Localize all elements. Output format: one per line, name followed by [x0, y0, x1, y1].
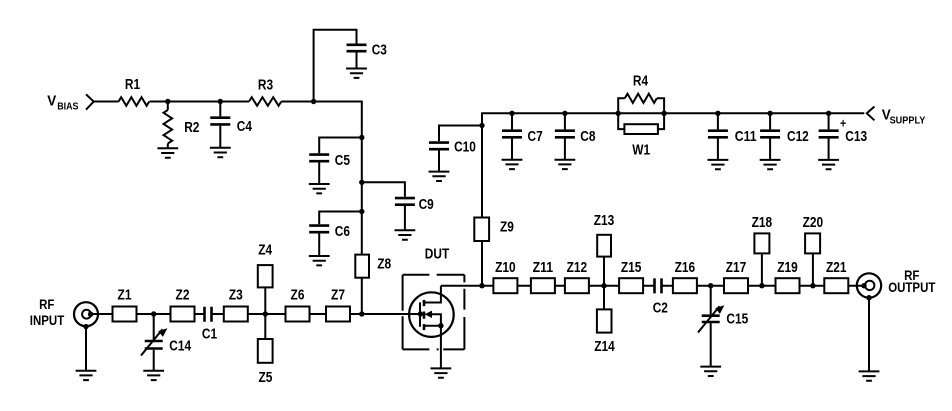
- impedance Z6: [286, 307, 310, 322]
- capacitor C13 (polarized): [828, 113, 830, 160]
- svg-text:R3: R3: [258, 78, 273, 94]
- node junction C6 branch: [359, 209, 364, 214]
- ground C12: [760, 160, 781, 169]
- node junction Z13/Z14: [601, 283, 606, 288]
- node junction C12: [767, 111, 772, 116]
- VBIAS input chevron: [86, 94, 94, 109]
- svg-text:R4: R4: [633, 74, 648, 90]
- ground C11: [708, 160, 729, 169]
- wire RF input line: [91, 313, 421, 315]
- wire up to C3: [314, 30, 357, 102]
- wire R3 to corner, down to gate line: [281, 102, 362, 315]
- svg-text:C2: C2: [653, 301, 668, 317]
- svg-text:C3: C3: [372, 43, 387, 59]
- wire supply rail and drain feed: [482, 113, 864, 285]
- node junction C5 branch: [359, 135, 364, 140]
- svg-text:Z11: Z11: [533, 260, 554, 276]
- capacitor C6: [319, 212, 362, 257]
- ground C10: [429, 172, 450, 181]
- svg-text:Z20: Z20: [803, 215, 824, 231]
- impedance Z18 (shunt stub up): [761, 253, 763, 285]
- svg-text:Z19: Z19: [777, 260, 798, 276]
- svg-text:C11: C11: [735, 129, 757, 145]
- MOSFET source lead: [424, 325, 441, 327]
- ground C4: [210, 148, 231, 157]
- node junction C14: [151, 311, 156, 316]
- node junction R4/W1 right: [661, 111, 666, 116]
- resistor R2: [167, 102, 169, 111]
- svg-text:C8: C8: [580, 129, 595, 145]
- impedance Z11: [531, 278, 555, 293]
- transistor Q1 MOSFET circle: [409, 292, 454, 337]
- svg-text:Z17: Z17: [726, 260, 747, 276]
- svg-text:Z21: Z21: [826, 260, 847, 276]
- svg-text:Z3: Z3: [229, 288, 243, 304]
- svg-text:Z10: Z10: [495, 260, 516, 276]
- wire connector to ground: [85, 327, 87, 371]
- node junction C4: [218, 99, 223, 104]
- svg-text:SUPPLY: SUPPLY: [890, 114, 926, 126]
- wire R1 to R3: [150, 101, 250, 103]
- ground C14: [143, 371, 164, 380]
- node junction Z20: [810, 283, 815, 288]
- svg-text:C4: C4: [237, 119, 252, 135]
- node junction C3 branch: [311, 99, 316, 104]
- capacitor C3: [347, 45, 367, 51]
- ground RF output: [859, 371, 880, 380]
- node junction C11: [715, 111, 720, 116]
- impedance Z7: [326, 307, 350, 322]
- impedance Z1: [113, 307, 137, 322]
- node junction C9 branch: [359, 180, 364, 185]
- VSUPPLY output chevron: [867, 107, 875, 121]
- svg-text:W1: W1: [632, 143, 650, 159]
- svg-text:C5: C5: [335, 153, 350, 169]
- impedance Z20 (shunt stub up): [812, 253, 814, 285]
- ground C6: [309, 256, 330, 265]
- svg-text:C12: C12: [787, 129, 809, 145]
- ground C15: [700, 367, 721, 376]
- svg-text:Z9: Z9: [500, 220, 514, 236]
- svg-text:Z6: Z6: [291, 288, 305, 304]
- capacitor C1 (series): [205, 307, 212, 322]
- svg-text:Z1: Z1: [118, 288, 132, 304]
- resistor R4: [618, 98, 664, 113]
- node junction C10 branch: [479, 123, 484, 128]
- svg-text:Z7: Z7: [331, 288, 345, 304]
- impedance Z17: [724, 278, 748, 293]
- impedance Z10: [493, 278, 517, 293]
- ground R2: [157, 148, 178, 157]
- svg-text:Z5: Z5: [258, 370, 272, 386]
- MOSFET body arrow: [425, 311, 432, 318]
- svg-text:OUTPUT: OUTPUT: [888, 279, 936, 295]
- variable capacitor C14: [153, 314, 155, 371]
- node junction C8: [562, 111, 567, 116]
- svg-text:C13: C13: [845, 129, 867, 145]
- impedance Z15: [619, 278, 643, 293]
- wattmeter W1: [618, 113, 664, 129]
- ground C8: [555, 160, 576, 169]
- impedance Z14 (shunt stub down): [603, 286, 605, 310]
- wire VBIAS to R1: [94, 101, 119, 103]
- svg-text:Z12: Z12: [567, 260, 588, 276]
- ground C9: [395, 230, 416, 239]
- svg-text:Z4: Z4: [258, 242, 272, 258]
- svg-text:DUT: DUT: [425, 247, 450, 263]
- variable capacitor C15: [710, 286, 712, 367]
- capacitor C5: [319, 138, 362, 185]
- capacitor C9: [362, 182, 405, 230]
- capacitor C12: [769, 113, 771, 160]
- impedance Z2: [171, 307, 195, 322]
- svg-text:C6: C6: [335, 224, 350, 240]
- capacitor C8: [564, 113, 566, 159]
- svg-text:Z18: Z18: [752, 215, 773, 231]
- resistor R1: [119, 97, 150, 106]
- node junction C15: [708, 283, 713, 288]
- svg-text:BIAS: BIAS: [57, 101, 78, 113]
- node junction C13: [826, 111, 831, 116]
- capacitor C2 (series): [655, 278, 662, 293]
- svg-text:RF: RF: [39, 296, 55, 312]
- node junction Z8 stub: [359, 311, 364, 316]
- svg-text:C7: C7: [528, 129, 543, 145]
- impedance Z5 (shunt stub down): [264, 314, 266, 339]
- RF input connector J1: [74, 302, 98, 326]
- ground C3: [346, 69, 367, 78]
- wire RF output line: [482, 285, 864, 287]
- ground C7: [502, 160, 523, 169]
- impedance Z21: [824, 278, 848, 293]
- node junction R2: [165, 99, 170, 104]
- ground RF input: [76, 371, 97, 380]
- svg-text:C9: C9: [419, 197, 434, 213]
- node junction Z4/Z5: [263, 311, 268, 316]
- svg-text:C10: C10: [454, 140, 476, 156]
- wire connector to ground: [868, 298, 870, 372]
- ground DUT source: [431, 368, 452, 377]
- svg-text:Z16: Z16: [675, 260, 696, 276]
- impedance Z8: [355, 255, 369, 278]
- svg-text:Z13: Z13: [594, 213, 615, 229]
- ground C13: [818, 160, 839, 169]
- wire source to ground: [440, 326, 442, 369]
- node junction drain/Z9/Z10: [479, 283, 484, 288]
- node junction Z18: [759, 283, 764, 288]
- impedance Z4 (shunt stub up): [264, 287, 266, 314]
- svg-text:Z14: Z14: [594, 339, 615, 355]
- svg-text:V: V: [47, 93, 56, 110]
- svg-text:R1: R1: [125, 77, 140, 93]
- resistor R3: [249, 97, 281, 106]
- MOSFET channel segments: [423, 300, 426, 330]
- svg-text:Z15: Z15: [621, 260, 642, 276]
- node junction C7: [509, 111, 514, 116]
- impedance Z3: [224, 307, 248, 322]
- capacitor C11: [717, 113, 719, 160]
- impedance Z19: [776, 278, 800, 293]
- impedance Z9 (drain feed): [474, 218, 489, 242]
- capacitor C10: [439, 126, 482, 172]
- ground C5: [309, 184, 330, 193]
- impedance Z13 (shunt stub up): [603, 257, 605, 286]
- MOSFET drain lead: [424, 286, 441, 303]
- svg-text:INPUT: INPUT: [30, 312, 65, 328]
- capacitor C7: [511, 113, 513, 159]
- capacitor C4: [219, 102, 221, 148]
- wire drain to supply node: [441, 285, 482, 287]
- svg-text:C14: C14: [169, 339, 191, 355]
- impedance Z12: [565, 278, 589, 293]
- DUT dashed box: [403, 275, 465, 350]
- MOSFET gate bar: [419, 302, 421, 326]
- svg-text:Z2: Z2: [176, 288, 190, 304]
- node junction R4/W1 left: [616, 111, 621, 116]
- svg-text:C15: C15: [726, 312, 748, 328]
- svg-text:C1: C1: [202, 327, 217, 343]
- RF output connector J2: [857, 273, 881, 297]
- svg-text:R2: R2: [184, 120, 199, 136]
- impedance Z16: [673, 278, 697, 293]
- svg-text:Z8: Z8: [377, 257, 391, 273]
